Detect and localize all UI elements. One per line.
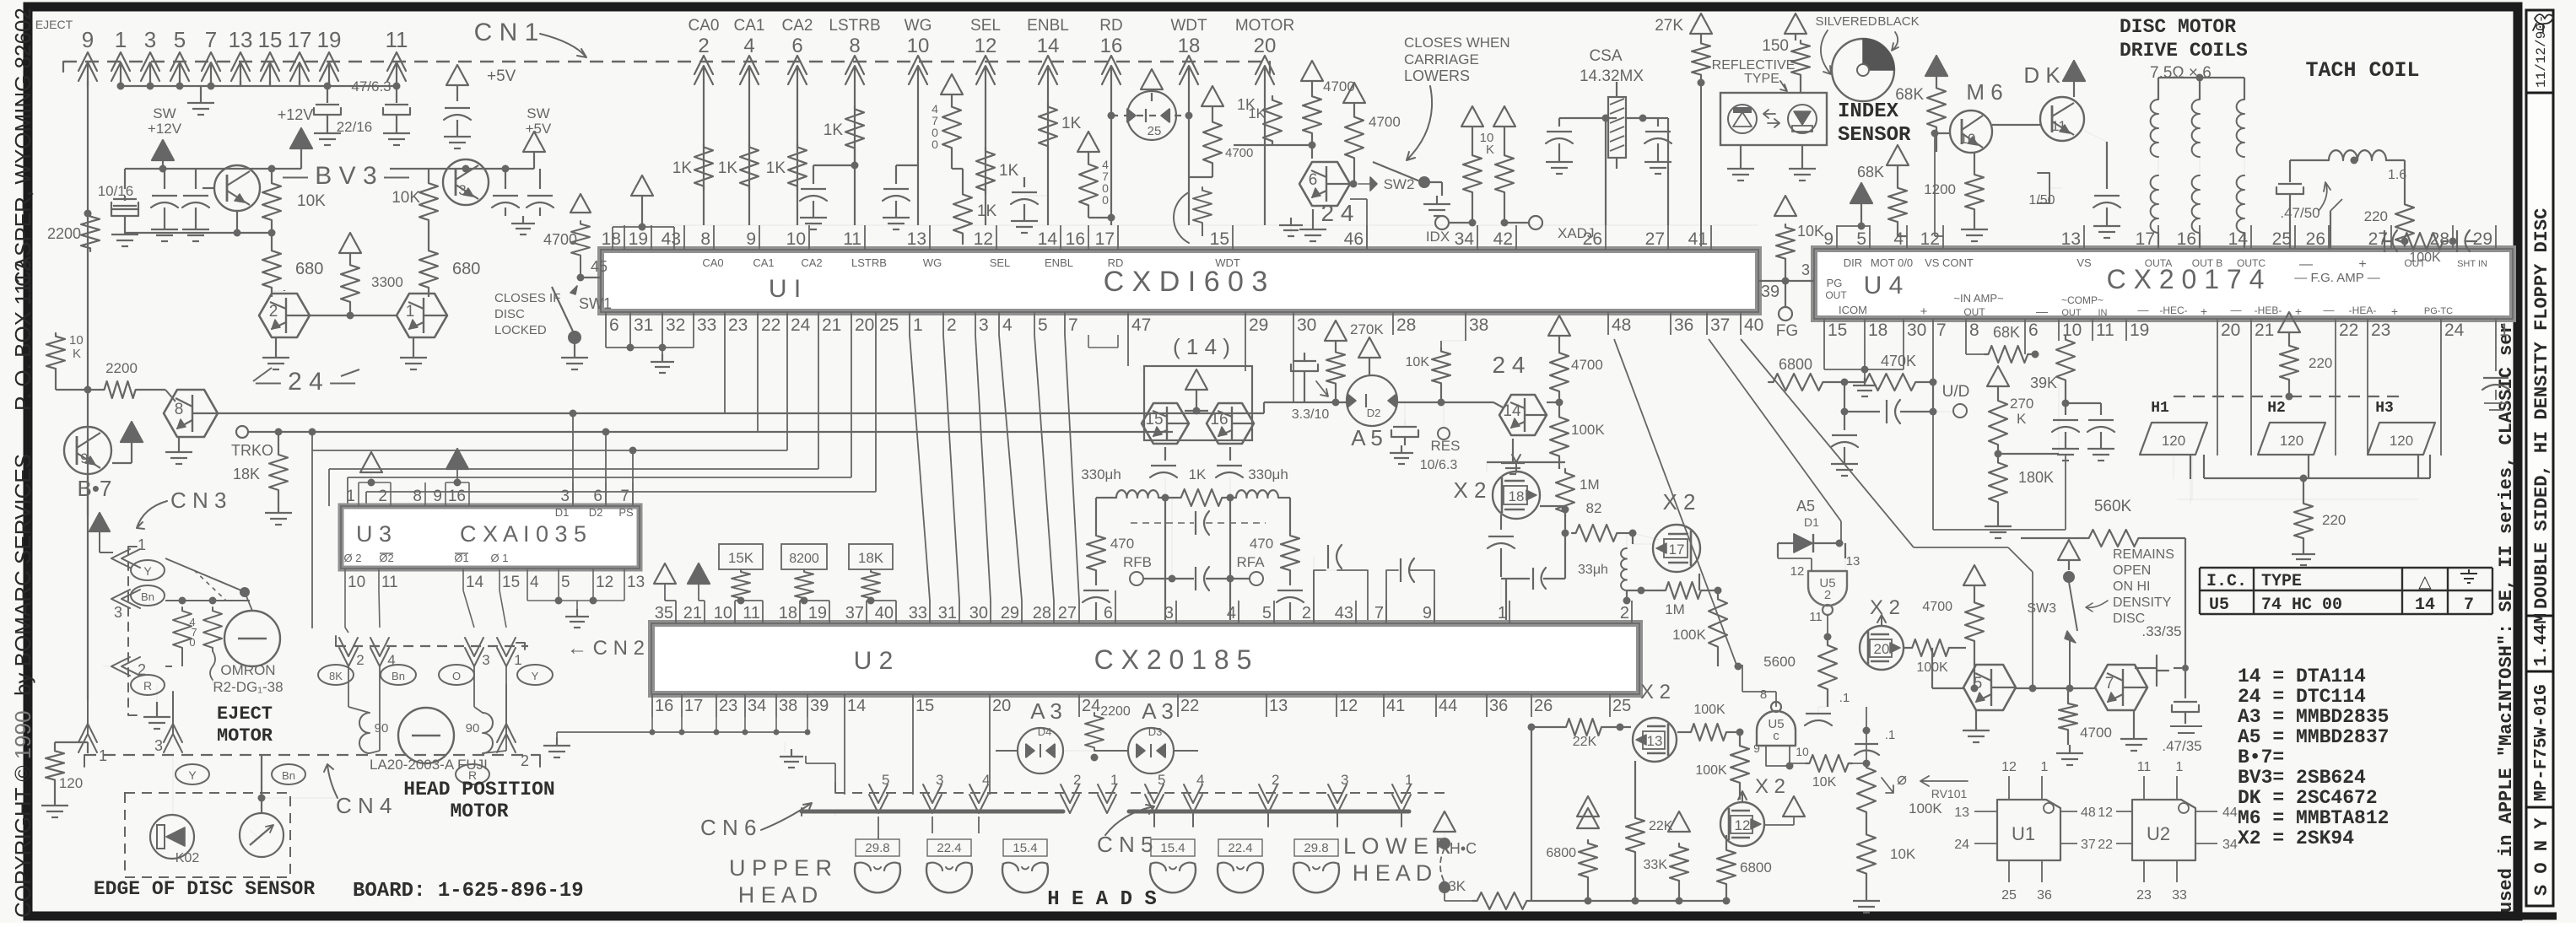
svg-text:DENSITY: DENSITY	[2113, 596, 2172, 610]
svg-text:24: 24	[1954, 838, 1969, 852]
svg-text:O: O	[452, 670, 461, 682]
svg-text:2: 2	[1073, 772, 1081, 788]
svg-text:WG: WG	[905, 17, 932, 35]
capacitor under 470K	[1844, 382, 1845, 412]
svg-text:A5: A5	[1796, 498, 1815, 515]
wire staircase pin20	[851, 335, 852, 477]
arrows between sensor elements	[1763, 110, 1775, 118]
wire vertical 2212	[1866, 707, 1867, 763]
svg-text:BV3= 2SB624: BV3= 2SB624	[2238, 767, 2366, 789]
wire pin 46 up to hexagon 6	[1366, 199, 1368, 250]
svg-text:470K: 470K	[1881, 353, 1916, 369]
svg-text:INDEX: INDEX	[1838, 100, 1899, 123]
resistor 1K LSTRB	[845, 105, 864, 152]
svg-text:120: 120	[59, 775, 83, 791]
TRKO circle	[236, 426, 248, 438]
svg-text:8: 8	[175, 401, 184, 418]
svg-text:2 4: 2 4	[1321, 200, 1354, 226]
svg-text:12: 12	[1920, 229, 1940, 249]
svg-text:OPEN: OPEN	[2113, 563, 2151, 578]
svg-text:1M: 1M	[1665, 601, 1685, 617]
svg-text:R2-DG₁-38: R2-DG₁-38	[213, 679, 283, 695]
capacitor X218 lower	[1532, 568, 1534, 590]
power triangle +12V solid	[290, 128, 312, 148]
svg-text:+: +	[2295, 305, 2302, 318]
svg-text:330μh: 330μh	[1081, 466, 1121, 482]
svg-text:Ø 1: Ø 1	[491, 552, 509, 564]
svg-text:1K: 1K	[766, 159, 786, 177]
eject motor circle	[224, 611, 280, 666]
svg-text:OUT: OUT	[1963, 306, 1985, 318]
LED in sensor	[1788, 105, 1817, 133]
resistor 1M horizontal	[1662, 582, 1704, 599]
svg-text:1: 1	[2041, 760, 2049, 774]
svg-text:4: 4	[743, 35, 754, 57]
wire left loop 560K	[1936, 489, 1938, 538]
svg-text:2 4: 2 4	[1493, 352, 1526, 378]
svg-text:2: 2	[356, 652, 364, 668]
svg-text:14.32MX: 14.32MX	[1580, 67, 1644, 85]
svg-text:1K: 1K	[999, 162, 1019, 180]
transistor 16 hexagon	[1207, 403, 1254, 444]
ground between 15 and 46	[1290, 225, 1292, 234]
FG circle	[1785, 281, 1786, 307]
resistor 68K horizontal	[1985, 346, 2032, 363]
svg-text:6: 6	[2028, 321, 2039, 340]
resistor 100K X213	[1688, 724, 1730, 741]
svg-text:10K: 10K	[392, 189, 420, 207]
svg-text:VS CONT: VS CONT	[1925, 256, 1974, 269]
svg-text:18K: 18K	[858, 550, 884, 566]
svg-text:10K: 10K	[1406, 355, 1430, 369]
wire TRKO bus	[248, 431, 1173, 433]
svg-text:21: 21	[683, 604, 702, 622]
resistor 680 right	[428, 224, 429, 247]
svg-text:39K: 39K	[2030, 375, 2057, 391]
power triangle SW+5V	[523, 132, 545, 152]
svg-text:Y: Y	[532, 670, 539, 682]
U3 bottom right bracket	[527, 590, 528, 601]
switch eject	[165, 558, 241, 590]
svg-text:12: 12	[1735, 817, 1751, 833]
capacitor bottom right RF	[1289, 574, 1291, 585]
svg-text:3: 3	[144, 27, 156, 52]
svg-text:H•C: H•C	[1450, 840, 1477, 857]
wire .33/35 vertical	[2184, 538, 2186, 668]
crystal CSA	[1608, 97, 1626, 158]
svg-text:IN: IN	[2098, 308, 2108, 318]
svg-text:U 2: U 2	[854, 647, 894, 675]
resistor 1K MOTOR	[1263, 96, 1282, 145]
svg-text:IDX: IDX	[1426, 229, 1450, 245]
svg-text:25: 25	[2001, 888, 2017, 903]
svg-text:8K: 8K	[329, 670, 343, 682]
svg-text:L O W E R: L O W E R	[1343, 833, 1451, 859]
open triangle pair	[1577, 796, 1599, 817]
svg-text:Bn: Bn	[282, 769, 295, 782]
CN1 pin 15	[261, 52, 279, 71]
ground under U2 pin area	[784, 742, 786, 752]
oval R	[131, 675, 165, 695]
svg-text:WDT: WDT	[1170, 17, 1207, 35]
resistor 220 tach	[2404, 160, 2406, 201]
svg-text:C X A I 0 3 5: C X A I 0 3 5	[460, 521, 586, 547]
I.C. table	[2199, 568, 2201, 614]
svg-text:44: 44	[1439, 697, 1457, 715]
svg-text:8: 8	[1969, 321, 1979, 340]
svg-text:22.4: 22.4	[937, 841, 961, 855]
svg-text:18: 18	[1178, 35, 1201, 57]
svg-text:44: 44	[2222, 806, 2238, 820]
svg-text:REMAINS: REMAINS	[2113, 547, 2174, 562]
svg-text:12: 12	[1790, 564, 1805, 579]
wire X212 to bus	[1725, 834, 1727, 836]
svg-text:26: 26	[1534, 697, 1553, 715]
svg-text:4: 4	[530, 574, 539, 591]
svg-text:1K: 1K	[824, 121, 844, 139]
wire gate2 inputs	[1811, 558, 1812, 571]
svg-text:5: 5	[174, 27, 186, 52]
CN1 pin 11	[387, 52, 406, 71]
right margin title block	[2526, 10, 2553, 906]
bird doodle	[2533, 14, 2553, 32]
svg-text:21: 21	[822, 315, 841, 335]
resistor 4700 WG	[941, 74, 963, 94]
capacitor RF mid lower	[1195, 567, 1196, 590]
svg-text:DK = 2SC4672: DK = 2SC4672	[2238, 787, 2378, 809]
svg-text:0: 0	[932, 137, 938, 151]
svg-text:19: 19	[808, 604, 827, 622]
svg-text:K: K	[1486, 143, 1494, 157]
resistor 4700 right of SW2	[1343, 83, 1365, 103]
svg-text:CLOSES WHEN: CLOSES WHEN	[1404, 35, 1510, 51]
svg-text:△: △	[2418, 573, 2432, 591]
CN1 pin 19	[320, 52, 338, 71]
oval Bn CN2	[381, 665, 416, 685]
svg-text:U1: U1	[2012, 823, 2035, 844]
svg-text:RFB: RFB	[1123, 554, 1152, 570]
resistor 100K vertical	[1709, 595, 1727, 651]
svg-text:18: 18	[602, 229, 621, 249]
svg-text:— 2 4 —: — 2 4 —	[256, 368, 355, 396]
svg-text:8: 8	[1760, 687, 1767, 702]
svg-text:—: —	[2324, 304, 2335, 316]
svg-text:13: 13	[1846, 554, 1860, 569]
head 15.4	[1150, 864, 1196, 892]
svg-text:16: 16	[655, 697, 673, 715]
svg-text:TYPE: TYPE	[1744, 72, 1779, 86]
switch SW2	[1350, 181, 1358, 188]
svg-text:3: 3	[114, 604, 122, 621]
svg-text:SW2: SW2	[1384, 176, 1415, 192]
wire top bus y102 to caps	[329, 85, 397, 87]
svg-text:11: 11	[2137, 760, 2152, 774]
capacitor LSTRB	[854, 152, 856, 165]
svg-text:17: 17	[1095, 229, 1115, 249]
head position motor	[398, 708, 454, 763]
svg-text:39: 39	[1761, 283, 1779, 301]
wire CN3 pin2 ground	[165, 666, 172, 667]
diode D4 circle	[1018, 728, 1063, 773]
ground under pin 32	[662, 348, 663, 354]
svg-text:12: 12	[2098, 806, 2113, 820]
svg-text:120: 120	[2390, 433, 2413, 449]
svg-text:22K: 22K	[1573, 735, 1597, 749]
svg-text:22: 22	[2098, 838, 2113, 852]
svg-text:5: 5	[1158, 772, 1165, 788]
svg-text:82: 82	[1586, 500, 1602, 516]
svg-text:MP-F75W-01G: MP-F75W-01G	[2532, 684, 2552, 801]
svg-text:10K: 10K	[297, 192, 326, 210]
svg-text:24 = DTC114: 24 = DTC114	[2238, 686, 2366, 708]
svg-text:4700: 4700	[2080, 725, 2112, 741]
svg-text:27K: 27K	[1655, 17, 1683, 35]
power triangle SW+12V solid	[152, 140, 174, 160]
svg-text:OUT: OUT	[1825, 289, 1847, 301]
svg-text:20: 20	[1874, 641, 1890, 657]
svg-text:ENBL: ENBL	[1045, 256, 1073, 269]
svg-text:2: 2	[1824, 588, 1831, 602]
head 22.4	[926, 864, 972, 892]
svg-text:13: 13	[1647, 733, 1663, 749]
svg-text:34: 34	[2222, 838, 2238, 852]
wire 27K down to pin 41	[1700, 83, 1702, 250]
connector CN2	[336, 645, 528, 647]
svg-text:15.4: 15.4	[1160, 841, 1185, 855]
svg-text:0: 0	[189, 636, 195, 649]
svg-text:23: 23	[719, 697, 737, 715]
svg-text:CASPER, WYOMING 82602: CASPER, WYOMING 82602	[10, 8, 35, 287]
svg-text:48: 48	[2081, 806, 2096, 820]
svg-text:by BOMARC SERVICES: by BOMARC SERVICES	[10, 454, 35, 696]
svg-text:29: 29	[2473, 229, 2492, 249]
wire power rail y200	[125, 168, 301, 170]
svg-text:12: 12	[596, 574, 613, 591]
svg-text:7: 7	[1374, 604, 1384, 622]
svg-text:OUT: OUT	[2061, 308, 2082, 318]
wire staircase pin25	[875, 335, 877, 492]
svg-text:18: 18	[779, 604, 797, 622]
CN5 pins	[1145, 784, 1164, 827]
svg-text:1K: 1K	[718, 159, 738, 177]
wire staircase pin22	[757, 335, 759, 432]
svg-text:ENBL: ENBL	[1027, 17, 1069, 35]
connector CN6 dashed	[835, 792, 1122, 794]
svg-text:38: 38	[779, 697, 797, 715]
svg-text:A3 = MMBD2835: A3 = MMBD2835	[2238, 706, 2389, 728]
head bar upper	[802, 810, 1063, 814]
svg-text:14: 14	[466, 574, 484, 591]
svg-text:5: 5	[1038, 315, 1048, 335]
svg-text:C X 2 0 1 8 5: C X 2 0 1 8 5	[1094, 644, 1252, 675]
transistor BV3 left	[214, 165, 260, 211]
svg-text:1: 1	[1110, 772, 1118, 788]
svg-text:CA2: CA2	[782, 17, 813, 35]
svg-text:10: 10	[348, 574, 365, 591]
svg-text:17: 17	[288, 27, 312, 52]
svg-text:VS: VS	[2076, 256, 2092, 269]
svg-text:PG-TC: PG-TC	[2424, 306, 2453, 316]
IC U1 CXD1603 box	[601, 250, 1758, 312]
svg-text:26: 26	[2306, 229, 2325, 249]
hexagon 7 transistor	[2095, 665, 2147, 710]
resistor 22K horizontal	[1563, 719, 1605, 736]
svg-text:MOTOR: MOTOR	[1235, 17, 1294, 35]
capacitor bank right	[505, 169, 506, 189]
svg-text:180K: 180K	[2018, 469, 2054, 486]
resistor 4700 above	[1963, 565, 1985, 585]
svg-text:1200: 1200	[1924, 181, 1956, 197]
svg-text:10/16: 10/16	[98, 183, 134, 199]
wire staircase pin21	[818, 335, 819, 469]
svg-text:18: 18	[1509, 488, 1525, 504]
svg-text:1M: 1M	[1580, 477, 1600, 493]
svg-text:1K: 1K	[1189, 466, 1207, 482]
svg-text:SW: SW	[153, 105, 176, 121]
oval O CN2	[439, 665, 474, 685]
svg-text:19: 19	[317, 27, 342, 52]
svg-text:6800: 6800	[1740, 860, 1772, 876]
svg-text:LSTRB: LSTRB	[829, 17, 880, 35]
wire crystal to pins	[1605, 118, 1607, 225]
power triangle X212	[1783, 796, 1805, 817]
resistor 10K bottom	[1857, 831, 1876, 877]
svg-text:M6 = MMBTA812: M6 = MMBTA812	[2238, 807, 2389, 829]
resistor 1K ENBL	[1039, 103, 1057, 150]
wire junction pin9 line	[84, 386, 92, 394]
svg-text:1: 1	[1405, 772, 1412, 788]
fan wires U1 to U2	[910, 335, 930, 601]
svg-text:9: 9	[1753, 741, 1760, 755]
svg-text:~COMP~: ~COMP~	[2061, 294, 2103, 306]
svg-text:10: 10	[1960, 131, 1976, 147]
svg-text:38: 38	[1469, 315, 1488, 335]
svg-text:35: 35	[655, 604, 673, 622]
svg-text:25: 25	[879, 315, 899, 335]
wires A3 diodes	[996, 750, 1018, 752]
capacitor .47/35	[2184, 671, 2186, 698]
transistor 15 hexagon	[1142, 403, 1189, 444]
resistor 220 bottom	[2303, 478, 2304, 500]
resistor 3300	[339, 233, 361, 253]
wire D2 row	[1293, 402, 1347, 403]
U1 pins 16 17 bracket	[1088, 335, 1089, 348]
svg-text:1: 1	[2499, 321, 2509, 340]
svg-text:13: 13	[1954, 806, 1969, 820]
resistor 470 right	[1281, 532, 1299, 574]
svg-text:12: 12	[2001, 760, 2017, 774]
svg-text:1: 1	[1498, 604, 1507, 622]
svg-text:H2: H2	[2267, 400, 2286, 417]
svg-text:A 3: A 3	[1030, 698, 1062, 724]
svg-text:H E A D: H E A D	[1353, 860, 1433, 886]
wire pin 9 down	[87, 81, 89, 516]
capacitor ENBL	[1024, 195, 1048, 197]
svg-text:2200: 2200	[47, 225, 81, 242]
svg-text:20: 20	[2221, 321, 2240, 340]
svg-text:6: 6	[1104, 604, 1113, 622]
svg-text:FG: FG	[1776, 322, 1798, 340]
transistor 6 hexagon 24	[1299, 162, 1350, 206]
svg-text:13: 13	[229, 27, 253, 52]
svg-text:4: 4	[1227, 604, 1236, 622]
capacitor .47/50	[2278, 183, 2302, 185]
capacitor WG	[896, 164, 918, 166]
CN1 pin 1	[111, 52, 130, 71]
svg-text:11: 11	[1809, 610, 1823, 624]
svg-text:10: 10	[1796, 745, 1809, 758]
svg-text:4700: 4700	[1369, 114, 1401, 130]
svg-text:30: 30	[1297, 315, 1316, 335]
power triangle DK	[2063, 61, 2085, 81]
resistor box 15K	[719, 544, 763, 569]
svg-text:22: 22	[2339, 321, 2358, 340]
svg-text:8200: 8200	[789, 552, 819, 566]
svg-text:Y: Y	[188, 768, 197, 782]
svg-text:270K: 270K	[1350, 321, 1384, 337]
svg-text:3: 3	[936, 772, 943, 788]
svg-text:13: 13	[907, 229, 926, 249]
IDX circle	[1435, 216, 1449, 229]
svg-text:48: 48	[1612, 315, 1631, 335]
svg-text:33K: 33K	[1440, 878, 1466, 894]
resistor 4700 right of hex24	[1548, 315, 1570, 336]
svg-text:26: 26	[1583, 229, 1602, 249]
power triangle near B7	[121, 422, 143, 442]
capacitor right of DK	[2106, 142, 2108, 189]
resistor 1K CA0	[694, 143, 713, 190]
svg-text:45: 45	[591, 258, 608, 275]
capacitor X218 source	[1500, 515, 1502, 530]
svg-text:14: 14	[2415, 596, 2435, 615]
resistor 220 pin22	[2278, 312, 2300, 332]
svg-text:1: 1	[99, 747, 107, 764]
svg-text:C N 1: C N 1	[474, 19, 539, 46]
svg-text:11: 11	[2051, 118, 2066, 134]
svg-text:TRKO: TRKO	[231, 442, 273, 459]
svg-text:1: 1	[406, 303, 415, 321]
wire bottom bus 33K	[1444, 892, 1445, 901]
svg-text:19: 19	[629, 229, 648, 249]
wire U1 to U4 pin3	[1758, 280, 1814, 282]
svg-text:470: 470	[1110, 536, 1134, 552]
resistor 10K pair	[1461, 106, 1483, 127]
svg-text:X 2: X 2	[1870, 596, 1900, 619]
svg-text:TYPE: TYPE	[2261, 572, 2302, 591]
svg-text:100K: 100K	[1909, 800, 1942, 817]
svg-text:10: 10	[69, 333, 84, 348]
svg-text:8: 8	[413, 488, 422, 505]
svg-text:K: K	[2017, 411, 2027, 427]
svg-text:4: 4	[982, 772, 990, 788]
svg-text:68K: 68K	[1857, 164, 1884, 181]
ground hexagon 24	[1512, 439, 1514, 455]
svg-text:25: 25	[1148, 124, 1162, 138]
capacitor 1/50	[2038, 173, 2049, 203]
svg-text:30: 30	[1907, 321, 1926, 340]
svg-text:10K: 10K	[1797, 223, 1824, 240]
svg-text:37: 37	[1710, 315, 1730, 335]
svg-text:X2 = 2SK94: X2 = 2SK94	[2238, 827, 2354, 849]
svg-text:37: 37	[845, 604, 864, 622]
head 29.8	[1293, 864, 1339, 892]
svg-text:16: 16	[448, 488, 466, 505]
svg-text:EDGE OF DISC SENSOR: EDGE OF DISC SENSOR	[94, 878, 315, 900]
svg-text:4700: 4700	[1225, 146, 1253, 160]
transistor 1 hexagon	[397, 294, 447, 337]
svg-text:28: 28	[1033, 604, 1051, 622]
svg-text:11: 11	[743, 604, 760, 622]
